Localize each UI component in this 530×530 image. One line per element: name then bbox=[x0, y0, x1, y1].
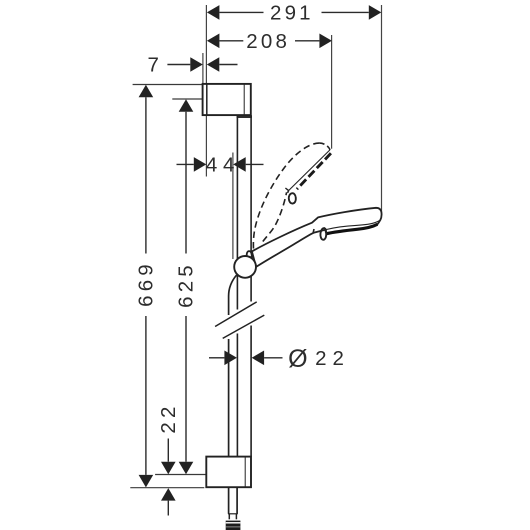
hose nut bbox=[226, 521, 241, 530]
solid shower body bbox=[252, 208, 382, 267]
dimension 7 bbox=[167, 64, 237, 66]
svg-text:208: 208 bbox=[246, 30, 290, 53]
svg-text:669: 669 bbox=[135, 260, 158, 307]
dimension 22 bottom bbox=[167, 439, 169, 516]
solid clip tick bbox=[312, 229, 315, 233]
svg-text:Ø: Ø bbox=[288, 345, 307, 373]
extension line 291 right bbox=[381, 5, 383, 214]
dashed handle outer curve bbox=[253, 143, 319, 248]
slider ball bbox=[234, 256, 256, 278]
dashed head bottom tick bbox=[285, 188, 288, 191]
svg-text:22: 22 bbox=[157, 402, 180, 433]
svg-text:4 4: 4 4 bbox=[206, 154, 235, 177]
dashed head top cap bbox=[319, 143, 330, 150]
rail upper segment bbox=[237, 115, 251, 457]
reference line 625 bottom bbox=[155, 474, 206, 476]
dimension 44 bbox=[177, 163, 264, 165]
top bracket bbox=[203, 84, 251, 115]
dashed head hook bbox=[289, 193, 296, 203]
rail top cap bbox=[237, 116, 252, 118]
dimension 669 bbox=[145, 97, 147, 475]
reference line 625 top bbox=[172, 98, 202, 100]
slider knob bbox=[247, 251, 252, 257]
extension line 208 right bbox=[331, 35, 333, 149]
svg-text:291: 291 bbox=[270, 2, 314, 25]
extension line wall below bracket bbox=[205, 115, 207, 176]
solid head face line bbox=[326, 220, 380, 229]
dimension diameter 22 bbox=[209, 357, 283, 359]
dashed head face line bbox=[289, 150, 330, 190]
solid head spray band bbox=[326, 224, 377, 233]
extension line 7 left bbox=[202, 53, 204, 84]
extension line 44 right (hose center) bbox=[232, 153, 234, 260]
extension line wall top bbox=[205, 5, 207, 84]
reference line 669 bottom bbox=[130, 487, 204, 489]
hose below bracket bbox=[229, 487, 238, 514]
svg-text:7: 7 bbox=[147, 54, 158, 77]
dimension 625 bbox=[185, 112, 187, 462]
dashed handle inner curve bbox=[263, 192, 287, 241]
dimension 291 bbox=[219, 11, 368, 13]
svg-text:22: 22 bbox=[315, 347, 350, 370]
svg-text:625: 625 bbox=[175, 261, 198, 308]
dimension 208 bbox=[219, 40, 319, 42]
break symbol bbox=[215, 302, 264, 339]
hose upper from ball bbox=[229, 275, 237, 315]
solid hook bbox=[320, 228, 326, 240]
reference line 669 top bbox=[133, 84, 203, 86]
dashed head spray band bbox=[297, 153, 331, 189]
dashed head bottom cap bbox=[287, 190, 290, 193]
bottom bracket bbox=[206, 457, 251, 488]
